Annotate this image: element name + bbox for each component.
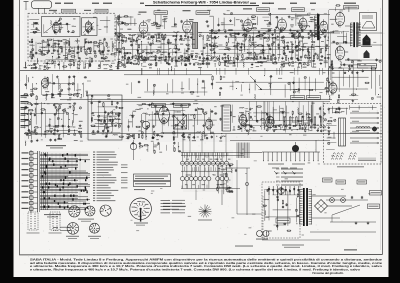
trimmer C253: [252, 42, 254, 44]
output transformer windings: [350, 22, 352, 24]
ground: [166, 108, 168, 109]
wire: [220, 61, 311, 63]
node N778: [61, 119, 62, 120]
capacitor C1039: [55, 106, 57, 108]
coil L468: [227, 62, 232, 65]
trimmer C845: [180, 104, 182, 106]
wire: [310, 105, 312, 125]
wire: [132, 34, 134, 59]
node N359: [126, 37, 127, 38]
capacitor C111: [133, 39, 135, 41]
wire: [63, 62, 65, 70]
capacitor C269: [261, 45, 263, 47]
coil L42: [76, 39, 79, 44]
trimmer C374: [209, 35, 211, 37]
wire: [144, 91, 207, 93]
bus wire top2: [224, 14, 330, 16]
wire: [188, 78, 190, 90]
node N988: [189, 137, 190, 138]
node N521: [52, 56, 53, 57]
node N758: [44, 103, 45, 104]
switch matrix header: [46, 145, 66, 146]
wire: [53, 23, 55, 32]
capacitor C152: [168, 53, 170, 55]
resistor R603: [119, 62, 122, 63]
node N428: [254, 57, 255, 58]
node N899: [255, 116, 256, 117]
node N545: [54, 65, 55, 66]
tube V6 EF86: [299, 16, 307, 32]
capacitor C773: [57, 129, 59, 131]
ground: [175, 51, 177, 52]
wire: [234, 17, 236, 26]
trimmer C280: [271, 43, 273, 45]
trimmer C527: [94, 55, 96, 57]
resistor R337: [311, 33, 312, 36]
resistor R734: [25, 133, 28, 134]
capacitor C851: [189, 103, 191, 105]
wire: [306, 112, 308, 121]
wire: [26, 75, 28, 89]
node N422: [230, 57, 231, 58]
coil L541: [33, 62, 38, 65]
resistor R796: [81, 134, 82, 137]
trimmer C507: [39, 49, 41, 51]
coil L1097: [264, 198, 269, 201]
wire: [207, 45, 209, 68]
resistor R259: [259, 35, 262, 36]
label EF89: [183, 10, 191, 11]
resistor R513: [71, 51, 74, 52]
wire: [99, 41, 101, 51]
node N966: [264, 75, 265, 76]
trimmer C124: [142, 51, 144, 53]
trimmer C172: [180, 55, 182, 57]
wire: [343, 68, 345, 86]
resistor R863: [202, 109, 203, 112]
node N153: [168, 57, 169, 58]
wire: [91, 24, 93, 29]
resistor R1017: [69, 94, 72, 95]
pickup circle: [142, 121, 150, 129]
trimmer C840: [172, 115, 174, 117]
wire: [167, 39, 169, 65]
wire: [333, 132, 335, 139]
resistor R514: [81, 49, 82, 52]
switch contact S7b: [207, 177, 211, 181]
ground: [25, 83, 27, 84]
coil L852: [190, 114, 195, 117]
ground: [229, 164, 231, 165]
capacitor C225: [229, 33, 231, 35]
wire: [30, 32, 41, 34]
capacitor C755: [41, 111, 43, 113]
tube socket large: [130, 198, 152, 220]
resistor R55: [91, 58, 92, 62]
capacitor C625: [351, 71, 353, 73]
resistor R181: [189, 58, 190, 62]
wire: [282, 108, 284, 121]
connector block 1: [28, 212, 38, 230]
resistor R319: [299, 42, 300, 45]
ground: [332, 30, 334, 31]
capacitor C536: [90, 41, 92, 43]
resistor R1064: [226, 173, 227, 177]
resistor R557: [125, 16, 128, 17]
resistor R685: [77, 94, 78, 97]
capacitor C1028: [29, 131, 31, 133]
supply wiring: [312, 195, 346, 197]
capacitor C11: [35, 52, 37, 54]
wire: [277, 17, 279, 28]
resistor R1005: [299, 125, 300, 129]
wire: [60, 22, 62, 30]
resistor R754: [41, 109, 44, 110]
wire: [106, 114, 108, 135]
capacitor C1105: [277, 198, 279, 200]
capacitor C959: [219, 87, 221, 89]
wire: [283, 39, 285, 51]
wire: [49, 118, 51, 132]
voltage selector: [278, 188, 284, 194]
wire: [68, 76, 70, 93]
resistor R731: [120, 136, 123, 137]
capacitor C448: [327, 57, 329, 59]
node N315: [295, 62, 296, 63]
node N1041: [65, 108, 66, 109]
resistor R920: [292, 111, 293, 114]
switch contact S2b: [185, 177, 189, 181]
node N458: [175, 62, 176, 63]
bridge rectifier D1: [315, 200, 328, 213]
capacitor C45: [76, 52, 78, 54]
node N20: [49, 60, 50, 61]
capacitor C620: [348, 65, 350, 67]
node N641: [376, 65, 377, 66]
ground: [156, 110, 158, 111]
resistor R232: [234, 46, 237, 47]
resistor R421: [228, 56, 229, 59]
capacitor C997: [249, 125, 251, 127]
resistor R119: [138, 56, 141, 57]
coil L207: [214, 36, 219, 39]
capacitor C313: [295, 46, 297, 48]
wire: [221, 24, 234, 26]
capacitor C258: [258, 30, 260, 32]
node N499: [267, 44, 268, 45]
resistor R807: [136, 126, 140, 127]
wire: [310, 231, 376, 233]
trimmer C682: [72, 83, 74, 85]
wire: [145, 51, 182, 53]
resistor R609: [331, 61, 332, 64]
wire: [332, 76, 369, 78]
node N526: [90, 57, 91, 58]
wire: [115, 17, 122, 19]
resistor R24: [52, 61, 53, 64]
node N1088: [115, 29, 116, 30]
wire: [356, 32, 382, 34]
ground: [251, 63, 253, 64]
capacitor C688: [91, 102, 93, 104]
wire: [294, 40, 296, 60]
wire: [270, 77, 272, 95]
wire: [41, 42, 43, 56]
resistor R116: [138, 45, 139, 48]
trimmer C643: [379, 60, 381, 62]
capacitor C346: [312, 60, 314, 62]
ground: [115, 32, 117, 33]
wire: [30, 133, 61, 135]
ground: [273, 129, 275, 130]
coil L1068: [230, 168, 233, 173]
bus wire mid: [24, 133, 382, 135]
FM tuner inner shield box: [42, 17, 81, 37]
coil L417: [213, 56, 218, 59]
capacitor C1086: [117, 18, 119, 20]
IF transformer T2 windings: [315, 15, 317, 17]
coil L925: [297, 108, 300, 113]
capacitor C619: [347, 58, 349, 60]
wire: [197, 78, 199, 93]
wire: [335, 7, 337, 11]
node N994: [234, 126, 235, 127]
capacitor C749: [34, 113, 36, 115]
resistor R389: [318, 37, 321, 38]
ground: [130, 40, 132, 41]
capacitor C15: [41, 51, 43, 53]
node N122: [141, 37, 142, 38]
capacitor C621: [349, 67, 351, 69]
wire: [241, 112, 243, 132]
resistor R512: [69, 49, 70, 52]
capacitor C989: [192, 136, 194, 138]
ground: [118, 35, 120, 36]
coil L303: [292, 29, 297, 32]
coil L764: [55, 110, 58, 115]
resistor R156: [173, 35, 176, 36]
resistor R714: [112, 122, 113, 125]
node N485: [141, 41, 142, 42]
tube V3 EF89: [183, 19, 192, 35]
ground: [66, 41, 68, 42]
trimmer C101: [123, 35, 125, 37]
node N264: [260, 57, 261, 58]
wire: [151, 111, 153, 138]
capacitor C746: [31, 140, 33, 142]
ground: [187, 136, 189, 137]
capacitor C86: [86, 30, 88, 32]
ground: [50, 130, 52, 131]
capacitor C267: [263, 32, 265, 34]
coil L855: [193, 102, 198, 105]
wire: [278, 31, 280, 59]
resistor R334: [309, 52, 310, 55]
label top right: [344, 3, 356, 4]
capacitor C430: [260, 56, 262, 58]
coil L515: [84, 48, 89, 51]
resistor R724: [119, 107, 122, 108]
wire: [337, 99, 358, 101]
wire: [304, 79, 306, 90]
ground: [175, 38, 177, 39]
capacitor C555: [117, 15, 119, 17]
wire: [289, 82, 291, 91]
wire: [52, 38, 54, 52]
capacitor C473: [261, 61, 263, 63]
wire: [48, 44, 50, 51]
wire: [77, 83, 79, 97]
capacitor C213: [218, 29, 220, 31]
capacitor C456: [155, 62, 157, 64]
wire: [168, 117, 170, 126]
capacitor C562: [174, 23, 176, 25]
coil L879: [221, 135, 226, 138]
resistor R176: [184, 58, 185, 62]
wire: [236, 42, 238, 68]
resistor R365: [158, 34, 159, 37]
trimmer C85: [72, 31, 74, 33]
resistor R810: [141, 121, 144, 122]
capacitor C353: [323, 36, 325, 38]
wire: [91, 98, 93, 123]
node N782: [68, 108, 69, 109]
keyboard bus 1: [181, 152, 262, 154]
resistor R410: [189, 56, 190, 60]
wire: [212, 81, 214, 89]
coil L344: [316, 45, 321, 48]
resistor R299: [287, 46, 288, 49]
switch contact S1a: [181, 161, 185, 165]
wire: [308, 77, 310, 98]
coil L828: [161, 105, 164, 110]
wire: [58, 44, 60, 57]
trimmer C919: [285, 125, 287, 127]
trimmer C590: [317, 14, 319, 16]
switch contact S11a: [225, 161, 229, 165]
resistor R926: [299, 113, 302, 114]
coil L544: [48, 62, 53, 65]
capacitor C464: [202, 63, 204, 65]
trimmer C204: [212, 57, 214, 59]
coil L1027: [115, 118, 120, 121]
resistor R627: [352, 94, 356, 95]
resistor R376: [231, 36, 235, 37]
trimmer C1022: [108, 94, 110, 96]
capacitor C830: [163, 120, 165, 122]
wire: [302, 38, 304, 58]
capacitor C166: [177, 49, 179, 51]
trimmer C819: [147, 125, 149, 127]
wire: [134, 19, 136, 26]
resistor R455: [149, 64, 152, 65]
node N1000: [270, 126, 271, 127]
wire: [69, 63, 71, 69]
capacitor C391: [122, 56, 124, 58]
keyboard hatch ticks: [181, 153, 183, 156]
wire: [182, 107, 184, 130]
resistor R379: [256, 36, 259, 37]
keyboard bus 3: [181, 188, 240, 190]
wire: [58, 106, 60, 126]
wire: [117, 63, 119, 69]
resistor R494: [226, 43, 227, 46]
ground: [289, 29, 291, 30]
wire: [67, 113, 69, 128]
capacitor C804: [132, 115, 134, 117]
switch contact S1b: [181, 177, 185, 181]
coil L191: [202, 59, 205, 64]
ground: [36, 139, 38, 140]
resistor R701: [104, 120, 105, 123]
svg-text:e ultracorte, Riche frequenza: e ultracorte, Riche frequenza a 460 kc/s…: [30, 268, 360, 272]
capacitor C579: [269, 29, 271, 31]
trimmer C13: [42, 40, 44, 42]
resistor R958: [220, 76, 221, 79]
resistor R1079: [154, 151, 155, 154]
node N504: [312, 44, 313, 45]
photo sensor: [292, 145, 298, 151]
fuse label box 1: [323, 178, 333, 182]
node N482: [125, 40, 126, 41]
wire: [316, 13, 318, 25]
trimmer C970: [288, 82, 290, 84]
capacitor C722: [114, 125, 116, 127]
trimmer C1052: [328, 142, 330, 144]
trimmer C908: [266, 129, 268, 131]
node N756: [40, 127, 41, 128]
value label box speaker: [358, 64, 377, 69]
wire: [285, 106, 287, 129]
resistor R301: [290, 51, 293, 52]
wire: [331, 106, 333, 113]
value label box automatic 1: [152, 104, 166, 108]
wire: [302, 105, 304, 125]
resistor R128: [147, 53, 150, 54]
wire: [28, 109, 30, 139]
coil L10: [37, 42, 42, 45]
coil L490: [180, 39, 185, 42]
wire: [173, 110, 175, 139]
resistor R398: [144, 57, 145, 60]
capacitor C559: [155, 22, 157, 24]
wire: [255, 106, 257, 122]
coil L990: [201, 135, 204, 140]
resistor R52: [86, 51, 87, 55]
node N858: [193, 125, 194, 126]
switch contact S2a: [185, 161, 189, 165]
wire: [99, 62, 101, 68]
resistor R889: [246, 125, 249, 126]
wire: [245, 110, 247, 126]
capacitor C51: [87, 47, 89, 49]
capacitor C94: [118, 51, 120, 53]
value label box phono 2: [307, 96, 321, 100]
resistor R238: [243, 35, 247, 36]
left label column: [21, 95, 29, 96]
wire: [345, 25, 353, 27]
wire: [231, 105, 233, 123]
loudspeaker LS1 box: [360, 13, 377, 31]
switch contact S5a: [198, 161, 202, 165]
switch contact S3b: [189, 177, 193, 181]
mains dashed enclosure: [262, 182, 300, 238]
capacitor C604: [117, 67, 119, 69]
capacitor C718: [115, 106, 117, 108]
trimmer C679: [68, 83, 70, 85]
wire: [266, 216, 298, 218]
ground: [31, 103, 33, 104]
